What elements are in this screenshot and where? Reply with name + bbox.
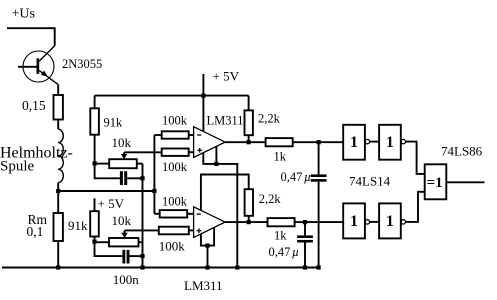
resistor 100k input op2 inverting: [154, 213, 159, 215]
svg-text:=1: =1: [427, 175, 443, 191]
resistor 0,15: [54, 95, 63, 120]
svg-text:10k: 10k: [112, 135, 132, 150]
svg-text:100k: 100k: [162, 195, 188, 209]
svg-text:1k: 1k: [274, 150, 287, 164]
wire op2 ground pins: [201, 227, 214, 245]
junction op1 gnd pin: [214, 162, 218, 166]
wire cap branch channel 1: [95, 163, 120, 178]
wire op2 output: [225, 221, 267, 223]
resistor 91k channel 2: [90, 211, 99, 236]
resistor 1k channel 2: [268, 218, 295, 226]
junction op1 gnd rail: [235, 265, 239, 269]
capacitor 100n channel 1: [120, 171, 127, 185]
svg-text:1: 1: [386, 213, 394, 230]
wire U3D to XOR bottom input: [406, 192, 425, 222]
resistor 2,2k channel 1: [245, 110, 253, 135]
wire +5V rail channel 1: [95, 95, 249, 97]
wire sensor column to both inverting inputs: [153, 135, 155, 214]
junction filter cap channel 1: [317, 140, 321, 144]
svg-text:100k: 100k: [162, 160, 188, 174]
inductor Helmholtz-Spule: [58, 129, 63, 182]
svg-text:1k: 1k: [274, 229, 287, 243]
capacitor 0,47u channel 2: [304, 222, 306, 235]
wire +Us supply to collector: [7, 28, 55, 46]
junction 2,2k output channel 1: [247, 140, 251, 144]
svg-text:2N3055: 2N3055: [62, 57, 102, 71]
resistor 100k input op2 non-inverting: [159, 227, 189, 235]
wire emitter: [57, 85, 59, 95]
power +5V terminal channel 2: [94, 198, 96, 211]
junction 91k / pot channel 1: [93, 161, 97, 165]
wire U3C to U3D: [370, 221, 379, 223]
junction return column ground: [140, 265, 144, 269]
wire pot1 wiper to 100k: [124, 151, 162, 153]
junction cap2 column: [140, 254, 144, 258]
svg-text:LM311: LM311: [207, 114, 244, 128]
resistor 100k input op1 non-inverting: [162, 149, 189, 156]
pot2 wiper arrow: [124, 230, 126, 233]
op-amp U1 LM311: [194, 127, 226, 158]
wire op1 ground pins: [203, 153, 237, 268]
wire op2 V+ pin to 2,2k: [201, 175, 249, 211]
junction op2 gnd rail: [205, 265, 209, 269]
wire resistor to coil: [57, 120, 59, 130]
power +5V terminal channel 1: [202, 74, 204, 96]
wire 91k2 to pot junction: [94, 237, 96, 242]
resistor 1k channel 1: [266, 138, 293, 146]
wire +5V to 91k: [94, 96, 96, 109]
inverter U3D 74LS14: [379, 203, 401, 238]
junction op2 gnd pins: [205, 244, 209, 248]
junction Rm ground: [56, 265, 60, 269]
capacitor 0,47u channel 1: [318, 142, 320, 174]
svg-text:2,2k: 2,2k: [258, 111, 281, 125]
wire pot1 right lead: [137, 163, 143, 165]
junction 0,47u channel 1 ground: [317, 265, 321, 269]
svg-text:1: 1: [350, 213, 358, 230]
transistor Q1 2N3055: [18, 46, 58, 85]
svg-text:0,47µ: 0,47µ: [269, 245, 300, 259]
junction 91k / pot channel 2: [92, 240, 96, 244]
inverter U3A 74LS14: [343, 125, 365, 160]
capacitor 100n channel 2: [122, 250, 129, 264]
node A junction: [56, 189, 60, 193]
junction 0,47u channel 2 ground: [303, 265, 307, 269]
inverter U3C 74LS14: [343, 203, 365, 238]
svg-text:10k: 10k: [112, 213, 132, 228]
op-amp U2 LM311: [194, 207, 226, 238]
potentiometer 10k channel 2: [109, 238, 139, 246]
wire node A to Rm: [57, 191, 59, 213]
resistor 100k input op1 inverting: [154, 134, 161, 136]
svg-text:1: 1: [350, 134, 358, 151]
wire op1 output: [225, 141, 266, 143]
wire U3A to U3B: [370, 141, 379, 143]
svg-text:0,1: 0,1: [27, 224, 44, 239]
wire pot2 right lead: [139, 241, 143, 243]
wire pot1 left lead: [95, 163, 110, 165]
junction cap1 column: [140, 176, 144, 180]
svg-text:Spule: Spule: [0, 158, 35, 174]
junction sensor line to 100k column: [152, 189, 156, 193]
wire 91k to pot junction: [94, 135, 96, 164]
wire 2,2k2 to output: [248, 216, 250, 222]
wire pot return column: [142, 164, 144, 268]
svg-text:100k: 100k: [162, 114, 188, 128]
wire 2,2k to output: [248, 135, 250, 142]
svg-text:2,2k: 2,2k: [259, 192, 282, 206]
resistor R 91k channel 1: [90, 108, 99, 134]
wire op1 V+ pin: [202, 96, 204, 132]
svg-text:+ 5V: + 5V: [213, 69, 240, 84]
svg-text:74LS14: 74LS14: [349, 173, 391, 188]
svg-text:+ 5V: + 5V: [98, 196, 125, 211]
inverter U3B 74LS14: [379, 125, 401, 160]
wire sensor node to comparators: [58, 190, 154, 192]
potentiometer 10k channel 1: [109, 159, 137, 168]
wire cap1 to rail column: [127, 177, 142, 179]
resistor Rm: [54, 213, 63, 241]
wire Rm to ground rail: [57, 241, 59, 268]
resistor 2,2k channel 2: [245, 189, 253, 216]
svg-text:+Us: +Us: [12, 7, 35, 22]
wire U3B to XOR top input: [406, 142, 425, 174]
wire 1k2 to inverter channel 2: [295, 221, 344, 223]
pot1 wiper arrow: [123, 152, 125, 155]
wire cap2 to rail column: [130, 255, 143, 257]
ground rail: [2, 267, 319, 269]
wire cap branch channel 2: [95, 242, 123, 257]
svg-text:1: 1: [386, 134, 394, 151]
junction +5V stub: [201, 94, 205, 98]
svg-text:74LS86: 74LS86: [441, 144, 483, 159]
svg-text:91k: 91k: [104, 116, 124, 130]
wire 2,2k channel 1 top: [248, 96, 250, 111]
wire 1k to inverter channel 1: [293, 141, 344, 143]
svg-text:100n: 100n: [113, 272, 140, 287]
XOR gate U4 74LS86: [425, 164, 447, 199]
svg-text:100k: 100k: [159, 239, 186, 254]
wire pot2 left lead: [95, 241, 110, 243]
svg-text:0,47µ: 0,47µ: [281, 170, 312, 184]
svg-text:LM311: LM311: [184, 278, 223, 293]
wire op2 gnd to rail: [207, 246, 209, 268]
wire coil to node A: [57, 183, 59, 191]
svg-text:0,15: 0,15: [22, 98, 46, 113]
wire XOR output: [446, 181, 484, 183]
svg-text:91k: 91k: [68, 218, 88, 233]
junction 2,2k output channel 2: [247, 220, 251, 224]
junction filter cap channel 2: [303, 220, 307, 224]
wire pot2 wiper to 100k: [125, 229, 159, 231]
